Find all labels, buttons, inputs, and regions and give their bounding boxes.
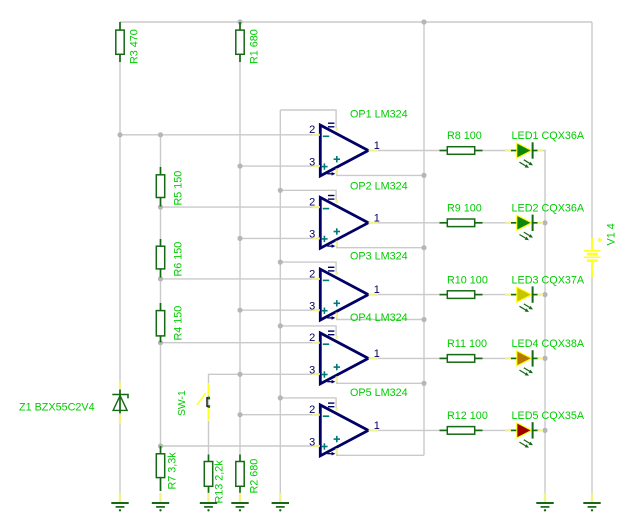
svg-text:R9 100: R9 100 bbox=[447, 203, 482, 215]
wire OP3 output to R10 bbox=[377, 294, 440, 296]
svg-text:3: 3 bbox=[309, 436, 315, 448]
svg-text:2: 2 bbox=[309, 268, 315, 280]
wire OP3 bottom power stub bbox=[337, 315, 424, 320]
svg-text:LED1 CQX36A: LED1 CQX36A bbox=[512, 130, 585, 142]
junction (280.3,190.3) bbox=[278, 188, 283, 193]
junction (545,222.8) bbox=[542, 220, 547, 225]
wire OP1 top power stub bbox=[280, 110, 336, 129]
wire R12 to LED5 bbox=[482, 429, 506, 431]
svg-text:OP2 LM324: OP2 LM324 bbox=[350, 181, 408, 193]
resistor R10 100 bbox=[440, 291, 483, 299]
resistor R3 470 bbox=[116, 22, 124, 62]
svg-text:1: 1 bbox=[374, 212, 380, 224]
LED2 CQX36A bbox=[505, 215, 543, 241]
wire OP2 output to R9 bbox=[377, 222, 440, 224]
svg-text:R11 100: R11 100 bbox=[447, 338, 487, 350]
wire OP5 top power stub bbox=[280, 398, 336, 409]
wire LED3 cathode to rail bbox=[543, 294, 546, 296]
battery V1 4 bbox=[584, 238, 602, 278]
junction (160.5,278.90000000000003) bbox=[158, 276, 163, 281]
wire top V+ rail bbox=[120, 21, 592, 23]
svg-text:OP5 LM324: OP5 LM324 bbox=[350, 387, 408, 399]
wire OP5 pin3 net bbox=[161, 445, 314, 447]
wire LED2 cathode to rail bbox=[543, 222, 546, 224]
wire reference rail x=240 bbox=[239, 22, 241, 455]
junction (424,383.29999999999995) bbox=[421, 381, 426, 386]
resistor R7 3,3k bbox=[156, 446, 164, 491]
wire OP2 bottom power stub bbox=[337, 243, 424, 248]
svg-text:1: 1 bbox=[374, 284, 380, 296]
op-amp OP2 LM324 bbox=[312, 196, 378, 249]
junction (160.5,207.10000000000002) bbox=[158, 205, 163, 210]
svg-text:LED4 CQX38A: LED4 CQX38A bbox=[512, 338, 585, 350]
wire op-amp gnd rail x=280 bbox=[279, 110, 281, 493]
svg-text:2: 2 bbox=[309, 124, 315, 136]
junction (424,22) bbox=[421, 19, 426, 24]
junction (120,134.8) bbox=[117, 132, 122, 137]
resistor R12 100 bbox=[440, 427, 483, 435]
wire OP4 pin2 net bbox=[161, 342, 314, 344]
ground op-amps bbox=[272, 493, 289, 512]
ground battery bbox=[583, 493, 600, 512]
svg-text:LED2 CQX36A: LED2 CQX36A bbox=[512, 203, 585, 215]
wire LED1 cathode to rail bbox=[543, 150, 546, 152]
svg-text:R10 100: R10 100 bbox=[447, 274, 488, 286]
wire LED4 cathode to rail bbox=[543, 357, 546, 359]
wire OP4 output to R11 bbox=[377, 357, 440, 359]
junction (280.3,262.1) bbox=[278, 260, 283, 265]
ground R13 bbox=[200, 493, 217, 512]
svg-text:R2 680: R2 680 bbox=[249, 459, 261, 494]
svg-text:R13 2,2k: R13 2,2k bbox=[214, 460, 226, 504]
wire OP5 pin2 net bbox=[240, 414, 313, 416]
wire R10 to LED3 bbox=[482, 294, 506, 296]
ground R2 bbox=[231, 493, 248, 512]
ground R7 bbox=[152, 493, 169, 512]
wire OP5 bottom power stub bbox=[337, 450, 424, 455]
svg-text:1: 1 bbox=[374, 348, 380, 360]
svg-text:R6 150: R6 150 bbox=[173, 242, 185, 277]
wire LED5 cathode to rail bbox=[543, 429, 546, 431]
op-amp OP5 LM324 bbox=[312, 403, 378, 456]
junction (424,319.5) bbox=[421, 317, 426, 322]
svg-text:2: 2 bbox=[309, 404, 315, 416]
wire battery rail x=592 bbox=[591, 22, 593, 238]
svg-text:R7 3,3k: R7 3,3k bbox=[167, 452, 179, 490]
resistor R1 680 bbox=[236, 22, 244, 62]
LED1 CQX36A bbox=[505, 142, 543, 168]
wire R8 to LED1 bbox=[482, 150, 506, 152]
wire OP3 pin3 net bbox=[240, 309, 313, 311]
op-amp OP3 LM324 bbox=[312, 267, 378, 320]
svg-text:R1 680: R1 680 bbox=[249, 29, 261, 64]
wire OP3 pin2 net bbox=[161, 278, 314, 280]
junction (545,358.4) bbox=[542, 356, 547, 361]
wire OP2 pin2 net bbox=[161, 206, 314, 208]
wire left zener rail x=120 bbox=[119, 22, 121, 493]
svg-text:1: 1 bbox=[374, 140, 380, 152]
junction (240,22) bbox=[237, 19, 242, 24]
svg-text:3: 3 bbox=[309, 301, 315, 313]
LED3 CQX37A bbox=[505, 286, 543, 312]
switch SW-1 bbox=[197, 383, 210, 421]
resistor R13 2,2k bbox=[204, 455, 212, 495]
zener diode Z1 BZX55C2V4 bbox=[112, 381, 128, 424]
wire OP1 pin2 net bbox=[120, 134, 313, 136]
svg-text:SW-1: SW-1 bbox=[177, 390, 188, 416]
wire R9 to LED2 bbox=[482, 222, 506, 224]
wire OP2 top power stub bbox=[280, 190, 336, 201]
resistor R2 680 bbox=[236, 455, 244, 495]
svg-text:R8 100: R8 100 bbox=[447, 130, 482, 142]
wire OP4 top power stub bbox=[280, 326, 336, 337]
svg-text:OP3 LM324: OP3 LM324 bbox=[350, 251, 408, 263]
svg-text:R3 470: R3 470 bbox=[129, 29, 141, 64]
resistor R4 150 bbox=[156, 303, 164, 342]
svg-text:LED3 CQX37A: LED3 CQX37A bbox=[512, 274, 585, 286]
resistor R5 150 bbox=[156, 167, 164, 207]
resistor R8 100 bbox=[440, 147, 483, 155]
svg-text:R12 100: R12 100 bbox=[447, 410, 488, 422]
wire op-amp V+ rail x=424 bbox=[423, 22, 425, 455]
junction (160.5,342.7) bbox=[158, 340, 163, 345]
svg-text:3: 3 bbox=[309, 364, 315, 376]
junction (160.5,446.0) bbox=[158, 443, 163, 448]
junction (240,166.1) bbox=[237, 164, 242, 169]
svg-text:2: 2 bbox=[309, 332, 315, 344]
junction (240,374.3) bbox=[237, 372, 242, 377]
svg-text:3: 3 bbox=[309, 229, 315, 241]
wire divider chain rail x=160 bbox=[160, 135, 162, 491]
wire OP1 bottom power stub bbox=[337, 171, 424, 176]
junction (240,414.7) bbox=[237, 412, 242, 417]
resistor R6 150 bbox=[156, 239, 164, 278]
resistor R9 100 bbox=[440, 219, 483, 227]
junction (240,310.20000000000005) bbox=[237, 308, 242, 313]
junction (280.3,397.9) bbox=[278, 395, 283, 400]
ground LEDs bbox=[536, 493, 553, 512]
wire LED cathode rail x=545 bbox=[544, 151, 546, 494]
wire OP1 output to R8 bbox=[377, 150, 440, 152]
LED4 CQX38A bbox=[505, 350, 543, 376]
resistor R11 100 bbox=[440, 355, 483, 363]
svg-text:LED5 CQX35A: LED5 CQX35A bbox=[512, 410, 585, 422]
svg-text:V1 4: V1 4 bbox=[606, 223, 618, 245]
svg-text:3: 3 bbox=[309, 156, 315, 168]
wire R11 to LED4 bbox=[482, 357, 506, 359]
junction (545,294.6) bbox=[542, 292, 547, 297]
junction (424,247.70000000000002) bbox=[421, 245, 426, 250]
wire OP5 output to R12 bbox=[377, 429, 440, 431]
junction (280.3,325.9) bbox=[278, 323, 283, 328]
junction (424,175.4) bbox=[421, 173, 426, 178]
svg-text:R5 150: R5 150 bbox=[173, 171, 185, 206]
wire OP3 top power stub bbox=[280, 262, 336, 273]
junction (160.5,134.8) bbox=[158, 132, 163, 137]
wire OP1 pin3 net bbox=[240, 165, 313, 167]
wire OP2 pin3 net bbox=[240, 237, 313, 239]
LED5 CQX35A bbox=[505, 422, 543, 448]
op-amp OP1 LM324 bbox=[312, 123, 378, 176]
svg-text:R4 150: R4 150 bbox=[173, 306, 185, 341]
wire OP4 bottom power stub bbox=[337, 378, 424, 383]
svg-text:1: 1 bbox=[374, 420, 380, 432]
junction (240,238.4) bbox=[237, 236, 242, 241]
junction (545,430.4) bbox=[542, 428, 547, 433]
op-amp OP4 LM324 bbox=[312, 331, 378, 384]
svg-text:2: 2 bbox=[309, 197, 315, 209]
svg-text:OP4 LM324: OP4 LM324 bbox=[350, 312, 408, 324]
svg-text:Z1 BZX55C2V4: Z1 BZX55C2V4 bbox=[19, 402, 95, 414]
wire SW-1 branch bbox=[209, 374, 314, 414]
svg-text:OP1 LM324: OP1 LM324 bbox=[350, 109, 408, 121]
ground left bbox=[111, 493, 128, 512]
